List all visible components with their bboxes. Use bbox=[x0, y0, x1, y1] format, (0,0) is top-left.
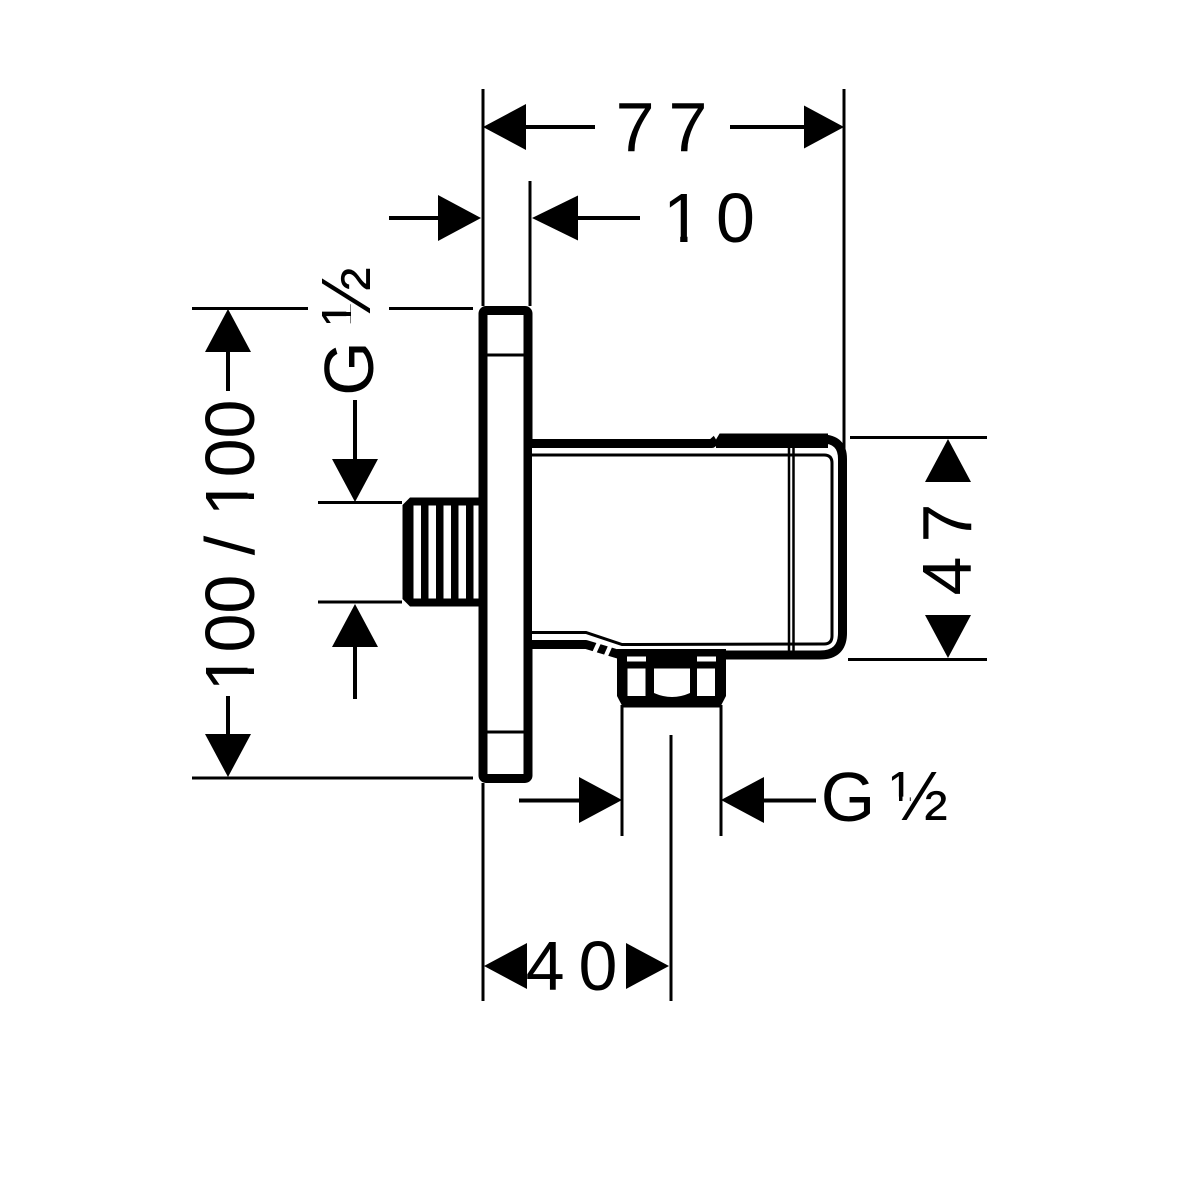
svg-text:40: 40 bbox=[526, 927, 632, 1005]
thread groove 3 bbox=[444, 506, 452, 599]
extension line left of bottom G 1/2 bbox=[621, 705, 624, 836]
arrowhead 47 down bbox=[925, 615, 971, 658]
dimension line 10 right segment bbox=[578, 216, 640, 220]
bottom outlet hex nut body bbox=[617, 649, 726, 708]
arrowhead 100/100 down bbox=[205, 734, 251, 777]
extension line top of dimension 100/100 right part bbox=[389, 307, 473, 310]
threaded inlet connector body bbox=[403, 498, 484, 607]
dimension line 77 right segment bbox=[730, 125, 804, 129]
dimension line bottom G 1/2 right segment bbox=[764, 799, 816, 803]
holder joint line 2 bbox=[792, 448, 795, 652]
thread groove 1 bbox=[414, 506, 422, 599]
extension line thread bottom bbox=[318, 601, 402, 604]
extension line right of dimension 10 bbox=[529, 181, 532, 306]
svg-text:100 / 100: 100 / 100 bbox=[191, 400, 269, 692]
extension line bottom of dimension 47 bbox=[848, 658, 987, 661]
outlet body outer contour bbox=[532, 439, 843, 655]
arrowhead G 1/2 down bbox=[332, 459, 378, 502]
arrowhead 77 right bbox=[804, 106, 844, 149]
thread groove 5 bbox=[474, 506, 479, 599]
hex nut left face bbox=[628, 669, 646, 697]
arrowhead bottom G 1/2 left bbox=[579, 777, 622, 823]
leader stem G 1/2 down bbox=[353, 400, 357, 461]
wall plate inner edge line top bbox=[487, 354, 524, 357]
extension line left of dimension 40 bbox=[482, 783, 485, 1001]
hex nut middle face bbox=[654, 669, 690, 698]
arrowhead 47 up bbox=[925, 439, 971, 482]
leader stem G 1/2 up bbox=[353, 647, 357, 699]
arrowhead bottom G 1/2 right bbox=[721, 777, 764, 823]
svg-text:47: 47 bbox=[908, 490, 986, 596]
extension line right of bottom G 1/2 bbox=[720, 705, 723, 836]
extension line top of dimension 47 bbox=[850, 436, 987, 439]
arrowhead 10 outside-left bbox=[438, 195, 481, 241]
arrowhead 40 left bbox=[484, 943, 527, 989]
extension line left of dimension 77 bbox=[482, 89, 485, 306]
arrowhead 77 left bbox=[483, 104, 526, 150]
holder raised top edge bbox=[716, 434, 828, 449]
hex nut top slit right bbox=[697, 657, 716, 662]
svg-text:10: 10 bbox=[663, 179, 769, 257]
wall plate inner edge line bottom bbox=[487, 731, 524, 734]
svg-text:G: G bbox=[821, 758, 875, 836]
arrowhead G 1/2 up bbox=[332, 604, 378, 647]
extension line top of dimension 100/100 left part bbox=[192, 307, 308, 310]
chamfer slit 2 bbox=[604, 644, 614, 658]
center line of bottom outlet bbox=[670, 735, 673, 1001]
arrowhead 40 right bbox=[626, 943, 669, 989]
dimension line 100/100 lower segment bbox=[226, 696, 230, 737]
svg-text:G: G bbox=[310, 341, 388, 395]
dimension line 10 outside-left segment bbox=[389, 216, 438, 220]
thread groove 4 bbox=[459, 506, 467, 599]
dimension line 100/100 upper segment bbox=[226, 352, 230, 391]
hex nut top slit left bbox=[627, 657, 646, 662]
chamfer slit 1 bbox=[593, 640, 603, 654]
hex nut corner notch bbox=[727, 661, 732, 666]
svg-text:½: ½ bbox=[307, 267, 385, 325]
svg-text:77: 77 bbox=[616, 88, 722, 166]
arrowhead 10 inside-right bbox=[532, 196, 578, 241]
dimension line 77 left segment bbox=[526, 125, 595, 129]
arrowhead 100/100 up bbox=[205, 309, 251, 352]
wall plate (escutcheon) outline bbox=[483, 311, 528, 779]
body inner thin contour bbox=[532, 455, 832, 645]
svg-text:½: ½ bbox=[890, 757, 948, 835]
extension line thread top bbox=[318, 501, 402, 504]
thread groove 2 bbox=[429, 506, 437, 599]
hex nut right face bbox=[697, 669, 715, 697]
extension line right of dimension 77 bbox=[843, 89, 846, 452]
holder joint notch bbox=[712, 432, 721, 440]
extension line bottom of dimension 100/100 bbox=[192, 777, 473, 780]
holder joint line 1 bbox=[788, 448, 791, 652]
dimension line bottom G 1/2 left segment bbox=[519, 799, 579, 803]
